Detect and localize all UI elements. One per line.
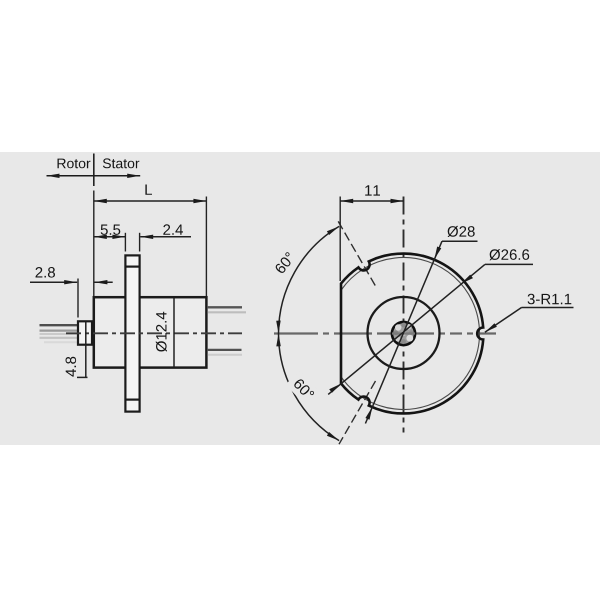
L right extension xyxy=(205,197,207,297)
boss circle d12.4 xyxy=(368,297,440,369)
flange plate (edge-on) xyxy=(125,255,139,411)
centerline (side view axis) xyxy=(66,332,242,334)
outer profile d28 flange with flat and notches xyxy=(341,254,483,414)
dimension Ø12.4 (body diameter line) xyxy=(156,298,174,367)
centerline horizontal (front view) xyxy=(274,332,496,334)
notch centerline 240deg xyxy=(339,381,376,444)
label Rotor xyxy=(58,159,91,169)
label 60 bottom xyxy=(286,371,322,408)
dimension 5.5 xyxy=(94,225,126,240)
label Stator xyxy=(103,158,139,168)
dimension 11 xyxy=(340,185,403,281)
dimension L xyxy=(94,185,207,204)
angular dimension arc R125 xyxy=(276,226,339,440)
dimension 4.8 xyxy=(66,322,88,379)
gray image band xyxy=(0,152,600,445)
notch centerline 120deg xyxy=(338,221,375,286)
wire stator leads (right) xyxy=(208,307,246,354)
rotor end cap xyxy=(78,321,92,344)
dimension 2.8 xyxy=(30,267,113,318)
leader 3-R1.1 xyxy=(485,294,574,333)
shaft hole (knurled) xyxy=(392,322,415,345)
leader d28 xyxy=(365,226,477,424)
Rotor / Stator divider + L left extension xyxy=(93,154,95,297)
dimension 2.4 xyxy=(125,224,191,251)
body (stator housing) xyxy=(94,297,207,367)
label 60 top xyxy=(267,244,302,282)
leader d26.6 xyxy=(328,249,533,394)
centerline vertical (front view) xyxy=(403,197,405,433)
rotor/stator double arrow xyxy=(47,174,141,178)
inner circle d26.6 xyxy=(341,258,479,410)
wire rotor leads (left) xyxy=(40,325,78,342)
